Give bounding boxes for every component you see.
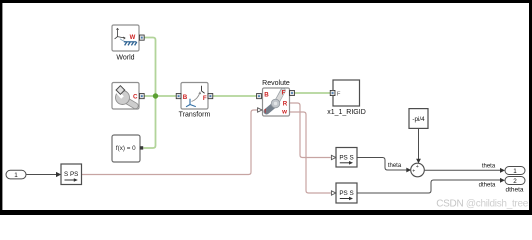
svg-text:1: 1 <box>14 172 18 179</box>
svg-text:W: W <box>130 35 136 41</box>
wire: Revolute R port to PS S 1 input (physical signal) <box>290 103 331 158</box>
port: PS S 2 input triangle <box>331 191 335 195</box>
frame right border <box>529 0 532 215</box>
wire: World W port down to f(x)=0 port (frame line) <box>143 38 155 149</box>
port: x1_1_RIGID F port box <box>330 90 335 95</box>
wire: Revolute w port to PS S 2 input (physical signal) <box>290 112 331 193</box>
block: Solver Configuration f(x)=0 <box>112 135 140 162</box>
svg-text:theta: theta <box>482 164 496 170</box>
port: Solver Configuration port square <box>140 146 143 149</box>
wire: S PS output to Revolute actuation input (physical signal) <box>82 110 258 175</box>
svg-text:B: B <box>264 92 269 99</box>
svg-text:F: F <box>203 95 207 102</box>
svg-text:S PS: S PS <box>64 171 78 178</box>
svg-text:theta: theta <box>388 163 402 169</box>
svg-text:t: t <box>264 108 266 114</box>
svg-text:dtheta: dtheta <box>479 183 496 189</box>
port: PS S 1 input triangle <box>331 155 335 159</box>
svg-text:R: R <box>283 101 288 108</box>
block: Constant -pi/4 <box>409 109 428 129</box>
svg-text:B: B <box>183 94 188 101</box>
block: Revolute <box>263 88 290 116</box>
svg-text:F: F <box>282 90 286 97</box>
wire: -pi/4 constant down to Sum <box>418 129 420 160</box>
wire: Inport 1 to S PS <box>27 174 57 176</box>
wire: Transform F port to Revolute B port <box>213 95 258 97</box>
svg-text:1: 1 <box>513 168 517 175</box>
port: Mechanism Configuration C port box <box>139 94 144 99</box>
svg-text:Transform: Transform <box>179 112 211 119</box>
wire: Revolute F port to x1_1_RIGID F port <box>294 92 330 94</box>
wire: PS S 1 to Sum (theta) <box>358 158 407 171</box>
svg-text:w: w <box>281 108 287 115</box>
port: Inport 1 <box>6 170 26 179</box>
port: Revolute B port box <box>257 94 262 99</box>
block: World <box>112 25 139 51</box>
frame bottom border <box>0 210 532 215</box>
svg-text:PS S: PS S <box>339 154 353 161</box>
node: green junction <box>153 93 158 98</box>
port: Outport 2 (dtheta) <box>505 177 525 186</box>
port: World W port box <box>139 35 144 40</box>
svg-text:PS S: PS S <box>339 190 353 197</box>
block: Sum <box>411 163 425 177</box>
port: Revolute F port box <box>290 90 295 95</box>
wire: Sum output to Outport 1 (theta) <box>425 169 501 171</box>
svg-text:+: + <box>416 164 419 170</box>
svg-text:C: C <box>133 94 138 101</box>
svg-text:World: World <box>116 55 134 62</box>
port: Transform F port box <box>208 94 213 99</box>
wire: PS S 2 to Outport 2 (dtheta) <box>358 180 501 193</box>
frame left border <box>0 0 2 215</box>
block: S PS converter <box>61 164 82 185</box>
port: Revolute actuation input triangle <box>258 108 262 112</box>
port: Outport 1 (theta) <box>505 167 525 176</box>
svg-text:CSDN @childish_tree: CSDN @childish_tree <box>436 198 528 209</box>
block: PS S converter 1 <box>336 148 357 168</box>
svg-text:F: F <box>337 91 341 97</box>
svg-text:x1_1_RIGID: x1_1_RIGID <box>327 109 366 116</box>
block: PS S converter 2 <box>336 183 357 203</box>
block: x1_1_RIGID <box>333 80 360 106</box>
svg-text:f(x) = 0: f(x) = 0 <box>116 145 136 152</box>
port: Transform B port box <box>176 94 181 99</box>
svg-text:-pi/4: -pi/4 <box>412 116 425 123</box>
svg-text:Revolute: Revolute <box>262 80 290 87</box>
frame top border <box>0 0 532 3</box>
wire: Mechanism Configuration C port to Transform B port <box>145 95 177 97</box>
svg-text:dtheta: dtheta <box>505 187 523 194</box>
svg-text:2: 2 <box>513 178 517 185</box>
block: Transform <box>181 83 208 110</box>
block: Mechanism Configuration <box>112 83 139 110</box>
